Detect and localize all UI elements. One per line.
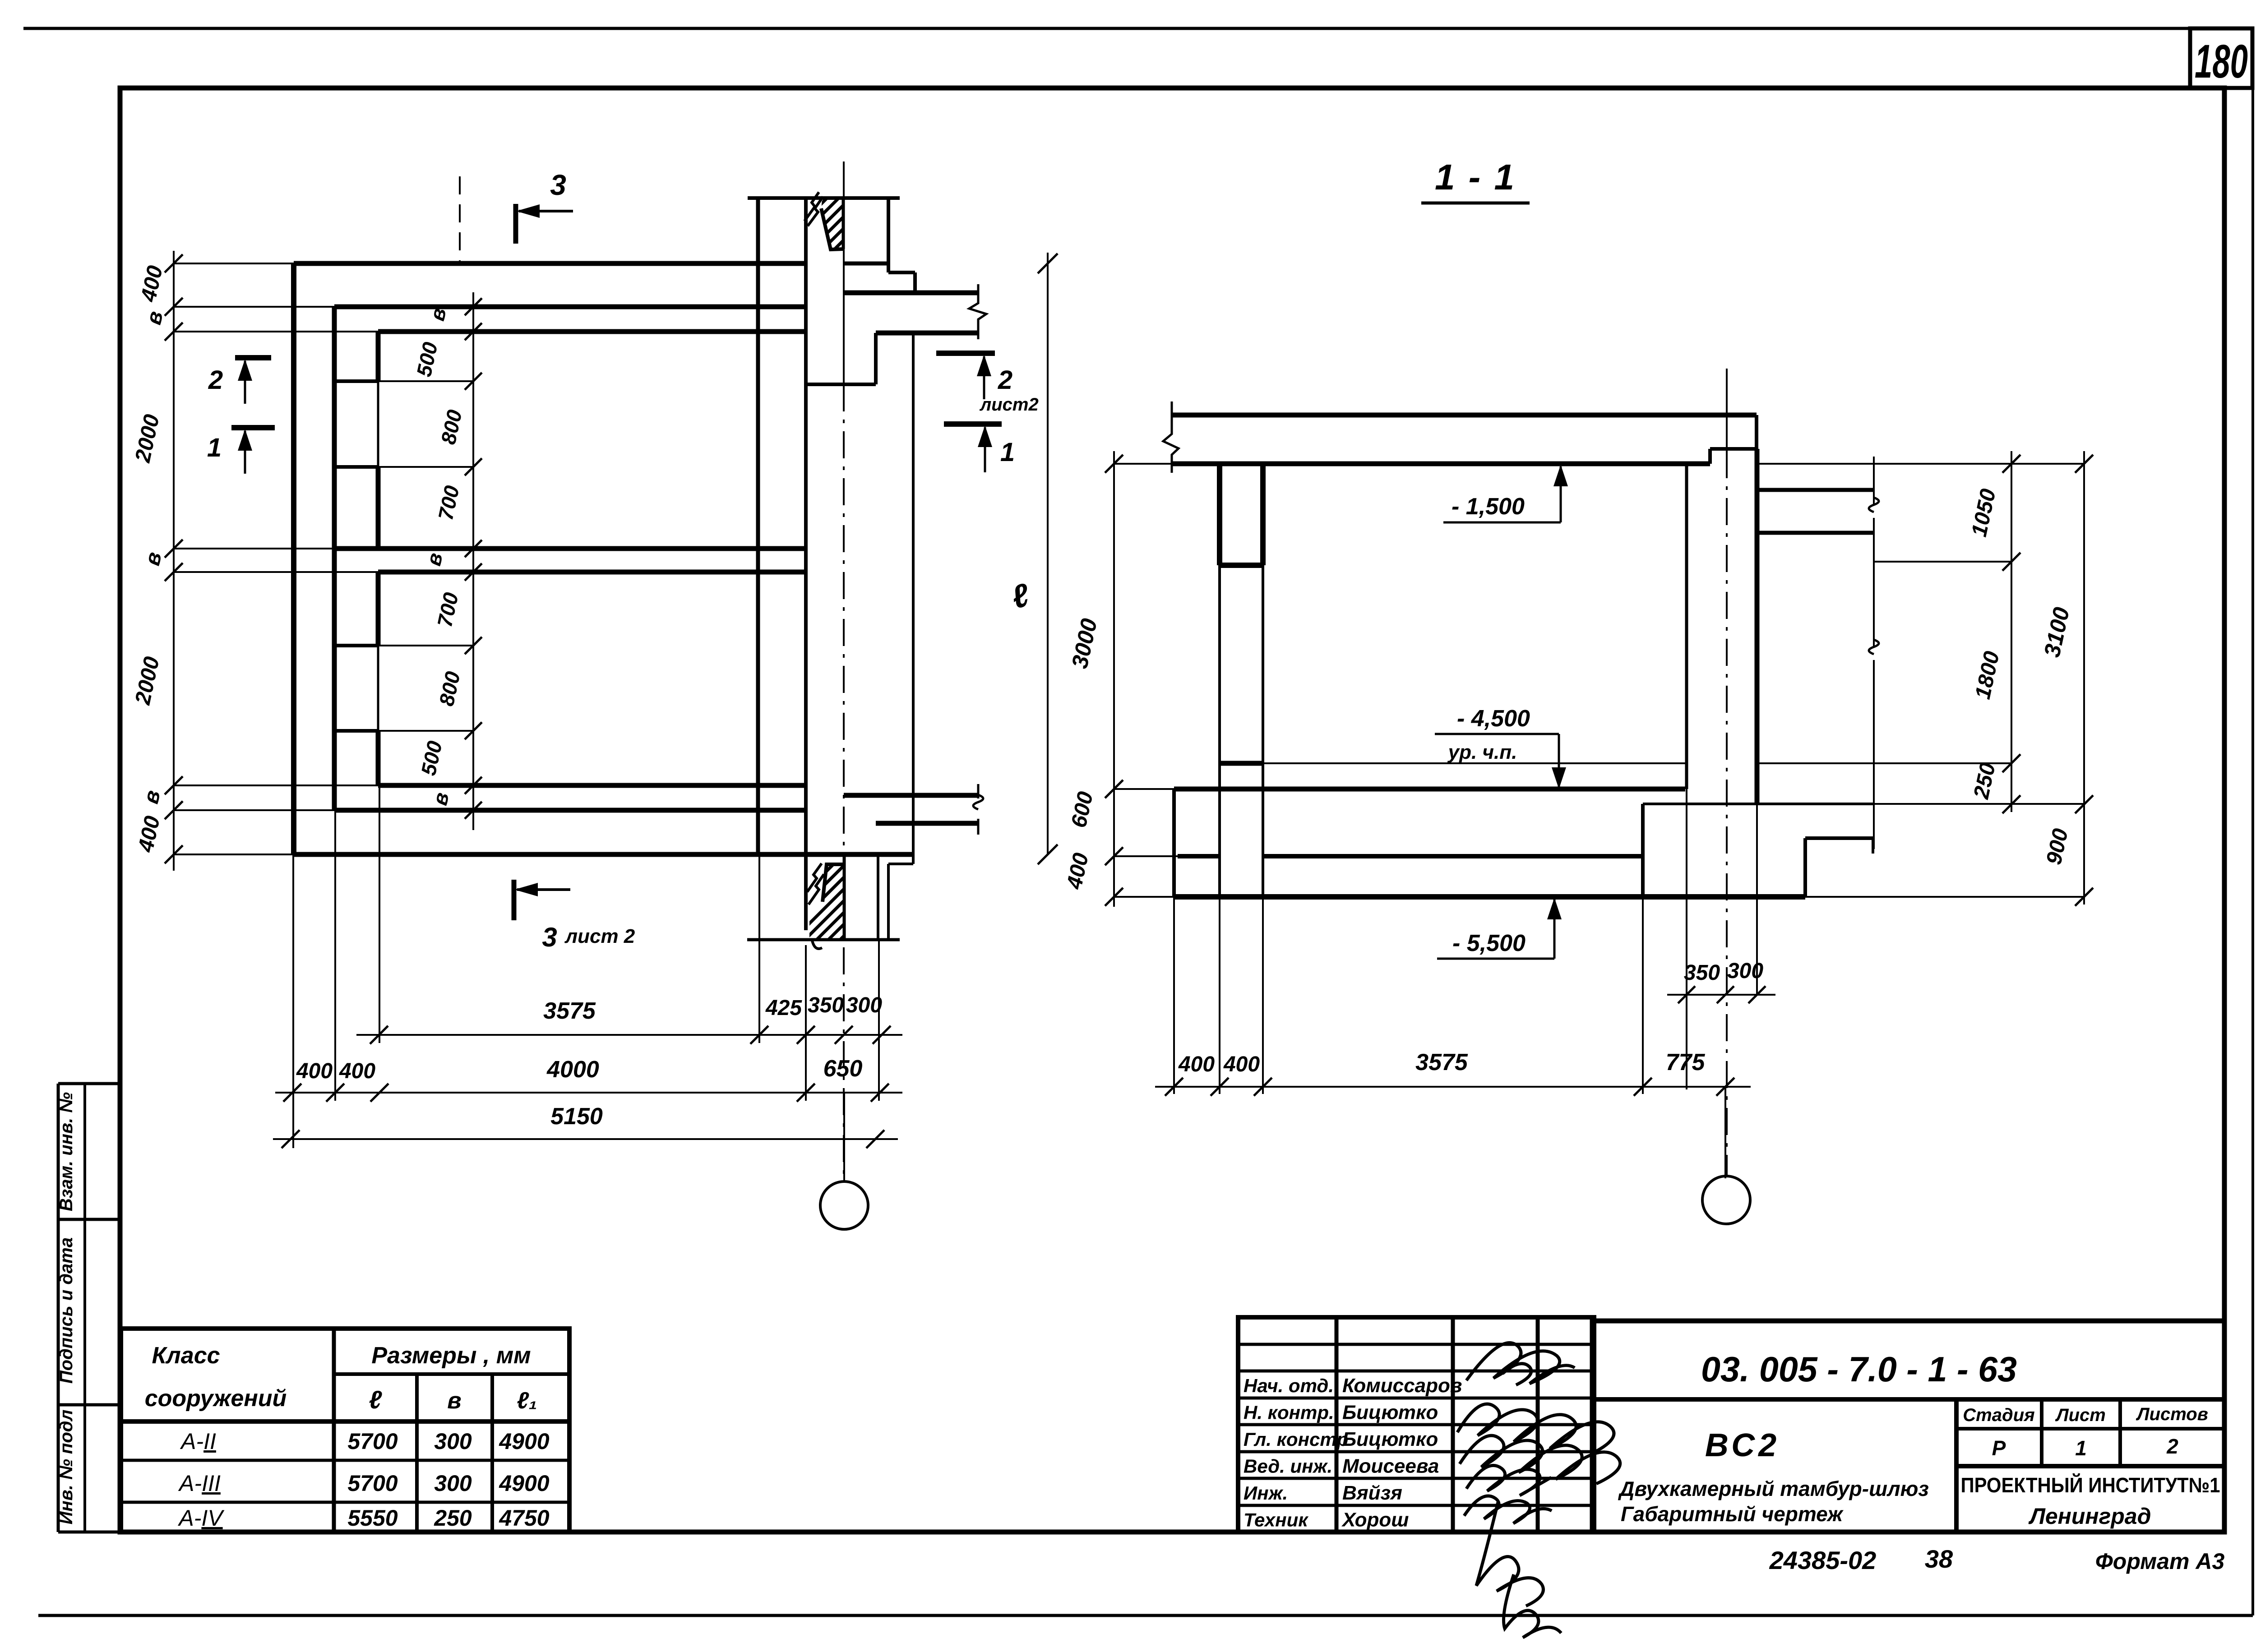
tick left chain xyxy=(165,540,183,558)
page number box xyxy=(2190,28,2252,88)
top hatch leg xyxy=(821,208,843,249)
tick sec right outer xyxy=(2075,888,2093,906)
tick inner chain xyxy=(465,722,482,739)
svg-text:3: 3 xyxy=(550,169,566,201)
level mark -4,500 xyxy=(1558,787,1559,788)
tick sec left xyxy=(1105,455,1123,473)
ext 1741 xyxy=(174,784,378,786)
tick inner chain xyxy=(465,802,482,819)
tooth step y1620 xyxy=(334,729,378,733)
svg-text:Комиссаров: Комиссаров xyxy=(1342,1375,1462,1397)
page bottom border xyxy=(38,1614,2253,1617)
tooth step y1431 xyxy=(334,644,378,647)
svg-text:350: 350 xyxy=(808,993,844,1017)
grid axis circle section xyxy=(1702,1176,1750,1224)
tick inner chain xyxy=(465,777,482,794)
bottom wall upper line xyxy=(378,783,806,788)
tooth edge 500 top chamber1 xyxy=(376,332,381,381)
tick sec right inner xyxy=(2002,553,2020,571)
signatures scribbles xyxy=(1457,1343,1620,1638)
svg-text:Двухкамерный тамбур-шлюз: Двухкамерный тамбур-шлюз xyxy=(1618,1477,1929,1500)
adjacent wall step vert xyxy=(913,272,917,293)
bottom step vertical xyxy=(887,864,890,940)
left footing step xyxy=(1172,789,1176,897)
bottom chain 3575/425/350/300 xyxy=(356,1034,902,1036)
flag2r arrow xyxy=(983,356,985,399)
sill line thin left xyxy=(1263,762,1685,764)
svg-text:400: 400 xyxy=(296,1059,333,1083)
page top border line xyxy=(23,27,2252,30)
block left edge xyxy=(1641,804,1645,897)
tick inner chain xyxy=(465,323,482,340)
section3 cut dashes xyxy=(459,176,461,262)
sill line thin right xyxy=(1758,762,1874,764)
svg-text:300: 300 xyxy=(434,1471,472,1496)
left wall outer thick xyxy=(1217,464,1222,565)
left wall outer below xyxy=(1218,565,1221,897)
break line right extension xyxy=(1873,457,1875,504)
svg-text:ℓ: ℓ xyxy=(369,1385,383,1414)
tick chain2 xyxy=(370,1084,388,1102)
ext 2799 down xyxy=(1262,897,1264,1094)
svg-text:1 - 1: 1 - 1 xyxy=(1435,157,1516,197)
svg-text:ВС2: ВС2 xyxy=(1705,1427,1780,1463)
tick sec bottom xyxy=(1254,1078,1272,1096)
svg-text:Подпись и дата: Подпись и дата xyxy=(56,1237,76,1384)
middle wall lower line xyxy=(378,570,804,575)
top wall upper line xyxy=(334,305,806,309)
squiggle1 xyxy=(1869,498,1879,512)
svg-text:Класс: Класс xyxy=(152,1343,220,1369)
svg-text:300: 300 xyxy=(846,993,882,1017)
tick sec right inner xyxy=(2002,795,2020,813)
grid axis circle plan xyxy=(820,1181,868,1229)
flag2 arrow xyxy=(244,361,246,404)
ext from inner face xyxy=(1686,789,1687,1089)
ext 1431 xyxy=(378,645,473,646)
ext 845 xyxy=(378,380,473,382)
section flag 3 bottom xyxy=(512,880,517,920)
svg-text:- 1,500: - 1,500 xyxy=(1452,494,1525,520)
tick chain1 xyxy=(750,1026,768,1044)
top hatch break double line xyxy=(804,192,819,221)
ext top edge xyxy=(174,263,294,264)
tick chain1 xyxy=(797,1026,815,1044)
svg-text:лист 2: лист 2 xyxy=(564,925,635,947)
shaft niche bottom horiz xyxy=(806,383,876,386)
left wall sill thick xyxy=(1218,761,1263,766)
tick chain2 xyxy=(283,1084,301,1102)
tick sec bottom xyxy=(1211,1078,1229,1096)
svg-text:4750: 4750 xyxy=(499,1505,549,1531)
table Klass sooruzheniy xyxy=(121,1329,569,1532)
svg-text:Размеры , мм: Размеры , мм xyxy=(371,1343,531,1369)
flag1 arrow xyxy=(244,431,246,474)
right wall pair bottom xyxy=(1757,531,1874,535)
ext v 841 xyxy=(379,785,380,1043)
right wall pair top xyxy=(1757,488,1874,492)
ext v 1683 xyxy=(758,854,760,1043)
tick inner chain xyxy=(465,637,482,654)
ext v 1948 xyxy=(878,940,880,1101)
slab right edge xyxy=(1755,415,1758,449)
tick inner chain xyxy=(465,540,482,557)
svg-text:2: 2 xyxy=(2166,1435,2178,1458)
left margin strip xyxy=(57,1084,60,1532)
ext top right xyxy=(1757,463,2084,465)
svg-text:Инж.: Инж. xyxy=(1244,1482,1288,1504)
tick inner chain xyxy=(465,563,482,581)
svg-text:ур. ч.п.: ур. ч.п. xyxy=(1447,741,1517,763)
tooth edge 700 chamber1 xyxy=(376,467,381,549)
bottom hatch right edge xyxy=(843,854,846,940)
svg-text:Инв. № подл: Инв. № подл xyxy=(56,1410,76,1525)
tick left chain xyxy=(165,254,183,272)
bottom chain 400/400/4000/650 xyxy=(275,1092,902,1094)
svg-text:лист2: лист2 xyxy=(979,395,1038,415)
section title underline xyxy=(1421,202,1530,205)
tick left chain xyxy=(165,845,183,863)
svg-text:2: 2 xyxy=(208,365,223,395)
svg-text:Вед. инж.: Вед. инж. xyxy=(1244,1456,1332,1477)
adjacent wall outer vertical xyxy=(912,333,915,854)
svg-text:ℓ₁: ℓ₁ xyxy=(517,1388,537,1414)
plan right wall inner vertical xyxy=(756,198,760,854)
axis line to circle xyxy=(843,1093,845,1181)
svg-text:1: 1 xyxy=(1000,438,1015,467)
hatch top block xyxy=(744,194,913,257)
svg-text:Стадия: Стадия xyxy=(1963,1405,2034,1425)
section flag 3 top xyxy=(513,204,518,244)
slab notch horiz xyxy=(1710,447,1757,451)
tick chain2 xyxy=(797,1084,815,1102)
svg-text:1: 1 xyxy=(207,433,222,462)
tick chain1 xyxy=(835,1026,853,1044)
ext 680 xyxy=(174,306,334,308)
right extension wall top line xyxy=(844,291,978,295)
svg-text:Листов: Листов xyxy=(2136,1404,2208,1424)
right extension wall bottom line xyxy=(876,331,978,336)
left wall inner below xyxy=(1262,565,1264,897)
tick chain2 xyxy=(871,1084,889,1102)
plan top outer edge left part xyxy=(294,261,806,266)
top wall lower line xyxy=(378,329,806,334)
squiggle2 xyxy=(1869,640,1879,654)
svg-text:- 4,500: - 4,500 xyxy=(1457,706,1530,732)
svg-text:5700: 5700 xyxy=(347,1429,398,1454)
frame top ext under box xyxy=(2224,86,2252,90)
bottom inner vertical xyxy=(877,854,879,940)
ext 1035 xyxy=(378,466,473,468)
ext bottom right xyxy=(1805,896,2084,898)
left wall inner thick xyxy=(1260,464,1266,565)
svg-text:Техник: Техник xyxy=(1244,1509,1308,1531)
tooth step y1035 xyxy=(334,465,378,469)
shaft niche right vertical xyxy=(874,333,878,384)
plan bottom outer edge xyxy=(294,852,913,857)
break bottom wall pair xyxy=(973,795,983,809)
block step edge dangling xyxy=(1872,838,1874,854)
ext block top xyxy=(1873,803,2084,805)
svg-text:Р: Р xyxy=(1992,1436,2006,1460)
ext pier right xyxy=(1756,804,1758,995)
tick chain1 xyxy=(370,1026,388,1044)
tick inner chain xyxy=(465,373,482,390)
level mark -1,500 xyxy=(1560,466,1561,467)
floor top -4500 xyxy=(1174,787,1685,792)
svg-text:Взам. инв. №: Взам. инв. № xyxy=(56,1092,76,1211)
ext v 1786 xyxy=(805,945,807,1101)
tick left chain xyxy=(165,801,183,819)
bottom extension wall bottom line xyxy=(876,821,978,826)
left wall thick bottom xyxy=(1220,563,1263,568)
section bottom chain xyxy=(1155,1086,1751,1088)
svg-text:38: 38 xyxy=(1925,1545,1953,1573)
tick inner chain xyxy=(465,458,482,475)
tooth step y845 xyxy=(334,379,378,383)
ext 735 xyxy=(174,331,378,332)
flag1r arrow xyxy=(984,427,986,472)
svg-text:400: 400 xyxy=(1178,1052,1215,1076)
svg-text:5550: 5550 xyxy=(347,1505,398,1531)
bottom hatch break double line xyxy=(807,863,822,892)
block step horiz xyxy=(1805,836,1873,840)
svg-text:Вяйзя: Вяйзя xyxy=(1342,1482,1402,1504)
tick sec right outer xyxy=(2075,455,2093,473)
svg-text:650: 650 xyxy=(823,1056,863,1082)
inner dim chain vertical xyxy=(472,292,474,830)
svg-text:Гл. констр: Гл. констр xyxy=(1244,1429,1348,1450)
svg-text:4900: 4900 xyxy=(499,1429,549,1454)
ext 2703 down xyxy=(1219,897,1220,1094)
tick sec bottom xyxy=(1634,1078,1652,1096)
svg-text:сооружений: сооружений xyxy=(145,1385,287,1412)
svg-text:2: 2 xyxy=(998,365,1012,395)
svg-text:Бицютко: Бицютко xyxy=(1342,1428,1438,1450)
shaft left wall vertical xyxy=(804,198,808,930)
svg-text:- 5,500: - 5,500 xyxy=(1452,930,1526,956)
tick sec left xyxy=(1105,847,1123,865)
foundation bottom xyxy=(1174,894,1805,900)
tick sec left xyxy=(1105,888,1123,906)
svg-text:А-IV: А-IV xyxy=(177,1505,225,1531)
tooth edge 700 chamber2 xyxy=(376,572,381,646)
svg-text:Габаритный чертеж: Габаритный чертеж xyxy=(1621,1502,1844,1526)
svg-text:Лист: Лист xyxy=(2055,1405,2106,1425)
section centerline xyxy=(1726,369,1728,451)
svg-text:3: 3 xyxy=(542,922,557,952)
tick mini xyxy=(1717,986,1734,1003)
tick mini xyxy=(1748,986,1766,1003)
tick sec bottom xyxy=(1165,1078,1183,1096)
page right border xyxy=(2251,28,2254,1615)
axis to circle sec xyxy=(1724,1087,1726,1178)
svg-text:ПРОЕКТНЫЙ ИНСТИТУТ№1: ПРОЕКТНЫЙ ИНСТИТУТ№1 xyxy=(1961,1473,2220,1497)
ext 1796 xyxy=(174,809,334,811)
svg-text:250: 250 xyxy=(434,1505,472,1531)
svg-text:Хорош: Хорош xyxy=(1341,1509,1409,1531)
svg-text:3575: 3575 xyxy=(543,998,596,1024)
ext v 743 xyxy=(334,810,336,1101)
adjacent wall vertical top xyxy=(887,198,890,272)
svg-text:А-III: А-III xyxy=(178,1471,221,1496)
slab notch vert xyxy=(1708,449,1712,464)
bottom wall lower line xyxy=(334,808,806,813)
middle wall upper line xyxy=(334,546,806,551)
svg-text:Формат А3: Формат А3 xyxy=(2095,1549,2225,1574)
svg-text:в: в xyxy=(447,1388,461,1414)
ext 1898 xyxy=(174,854,294,855)
left dim chain vertical xyxy=(173,251,175,871)
ext slab bottom left xyxy=(1114,463,1172,465)
step down at bottom edge xyxy=(912,854,915,864)
title block main xyxy=(1592,1321,2224,1532)
tooth edge 500 chamber2 xyxy=(376,731,381,785)
tick sec right inner xyxy=(2002,455,2020,473)
svg-text:А-II: А-II xyxy=(180,1429,216,1454)
tick sec bottom xyxy=(1716,1078,1734,1096)
section flag 1 right xyxy=(944,421,1002,427)
svg-text:400: 400 xyxy=(339,1059,375,1083)
bottom step horizontal xyxy=(888,863,913,865)
slab top xyxy=(1172,413,1757,418)
tick left chain xyxy=(165,563,183,581)
tick inner chain xyxy=(465,298,482,315)
svg-text:350: 350 xyxy=(1684,961,1720,985)
pit slab top left bit xyxy=(1178,854,1221,858)
tick sec left xyxy=(1105,780,1123,798)
plan left outer wall edge xyxy=(291,263,296,854)
svg-text:400: 400 xyxy=(1223,1052,1260,1076)
shaft top edge xyxy=(748,196,900,200)
ext v 650 xyxy=(292,854,294,1148)
bottom hatch tail below line xyxy=(812,941,822,949)
top hatch right edge xyxy=(842,199,845,249)
pier right edge xyxy=(1755,449,1760,804)
svg-text:24385-02: 24385-02 xyxy=(1769,1546,1877,1574)
plan left wall inner edge xyxy=(332,307,337,810)
slab bottom xyxy=(1172,461,1710,466)
bottom hatch top edge and leg xyxy=(823,864,844,902)
section left dim chain xyxy=(1113,451,1115,907)
ext block left down xyxy=(1642,897,1644,1094)
tick chain1 xyxy=(873,1026,891,1044)
dim l overall right of plan xyxy=(1047,253,1049,854)
svg-text:775: 775 xyxy=(1666,1049,1706,1075)
svg-text:180: 180 xyxy=(2195,35,2248,88)
slab left break edge xyxy=(1163,401,1179,473)
tick sec right inner xyxy=(2002,754,2020,772)
flag3b arrow xyxy=(517,888,570,891)
hatch bottom block xyxy=(717,859,932,945)
plan top outer edge right part xyxy=(843,262,888,266)
svg-text:Бицютко: Бицютко xyxy=(1342,1402,1438,1424)
svg-text:03. 005 - 7.0 - 1 - 63: 03. 005 - 7.0 - 1 - 63 xyxy=(1701,1349,2017,1389)
tick chain2 xyxy=(326,1084,344,1102)
tick left chain xyxy=(165,323,183,341)
svg-text:Моисеева: Моисеева xyxy=(1342,1455,1439,1477)
svg-text:300: 300 xyxy=(434,1429,472,1454)
svg-text:300: 300 xyxy=(1727,959,1763,983)
svg-text:Нач. отд.: Нач. отд. xyxy=(1244,1375,1334,1396)
ext 1268 xyxy=(174,571,378,573)
ext 2602 down xyxy=(1173,897,1175,1094)
svg-text:425: 425 xyxy=(765,996,802,1020)
block step vert xyxy=(1803,838,1807,897)
section flag 1 left xyxy=(231,425,275,430)
flag3 arrow xyxy=(519,210,573,212)
svg-text:1: 1 xyxy=(2075,1436,2087,1460)
adjacent wall step horiz xyxy=(888,271,915,274)
svg-text:5150: 5150 xyxy=(550,1103,603,1130)
bottom extension wall top line xyxy=(844,793,978,798)
block top line xyxy=(1643,803,1873,805)
level mark -5,500 xyxy=(1554,899,1555,900)
svg-text:4900: 4900 xyxy=(499,1471,549,1496)
svg-text:Ленинград: Ленинград xyxy=(2028,1504,2151,1529)
svg-text:Н. контр.: Н. контр. xyxy=(1244,1402,1334,1423)
title block signature table xyxy=(1238,1317,1594,1532)
tick sec right outer xyxy=(2075,795,2093,813)
svg-text:5700: 5700 xyxy=(347,1471,398,1496)
section flag 2 right xyxy=(936,351,995,356)
tick left chain xyxy=(165,776,183,794)
door opening edge 800 chamber2 xyxy=(377,646,379,731)
chamber right wall inner face xyxy=(1685,464,1688,789)
tick left chain xyxy=(165,298,183,316)
shaft centerline xyxy=(843,162,845,384)
bottom chain 5150 xyxy=(273,1138,898,1140)
ext 1245 xyxy=(1874,561,2011,563)
mini chain 350/300 xyxy=(1667,994,1775,996)
pit slab top xyxy=(1262,854,1641,858)
door opening edge 800 chamber1 xyxy=(377,381,379,467)
svg-text:4000: 4000 xyxy=(546,1057,599,1083)
section flag 2 left xyxy=(235,355,271,360)
bottom structure lower edge xyxy=(747,938,900,941)
break mark right wall end xyxy=(969,284,986,339)
svg-text:3575: 3575 xyxy=(1415,1049,1468,1075)
ext 1620 xyxy=(378,730,473,732)
ext 1216 xyxy=(174,548,334,549)
tick mini xyxy=(1678,986,1695,1003)
